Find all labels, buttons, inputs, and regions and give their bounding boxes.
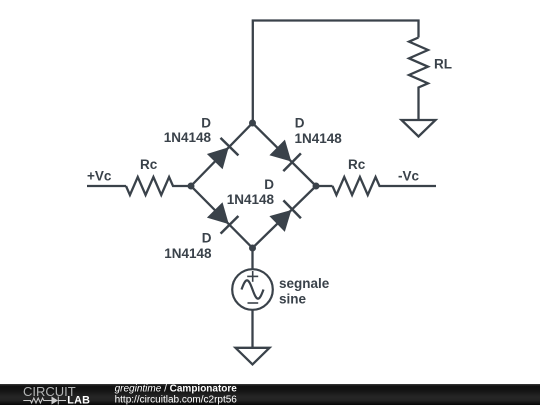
svg-text:D: D xyxy=(264,177,274,192)
svg-text:RL: RL xyxy=(434,57,452,72)
svg-text:sine: sine xyxy=(279,292,307,307)
svg-text:LAB: LAB xyxy=(67,394,90,405)
svg-text:segnale: segnale xyxy=(279,276,330,291)
svg-text:gregintime / Campionatore: gregintime / Campionatore xyxy=(115,384,238,395)
svg-text:D: D xyxy=(295,116,305,131)
svg-text:1N4148: 1N4148 xyxy=(164,246,212,261)
svg-text:http://circuitlab.com/c2rpt56: http://circuitlab.com/c2rpt56 xyxy=(115,395,238,405)
svg-text:+Vc: +Vc xyxy=(87,169,112,184)
svg-text:Rc: Rc xyxy=(140,157,158,172)
svg-text:Rc: Rc xyxy=(348,157,366,172)
svg-text:D: D xyxy=(202,231,212,246)
svg-text:1N4148: 1N4148 xyxy=(164,130,212,145)
svg-text:D: D xyxy=(201,116,211,131)
svg-text:1N4148: 1N4148 xyxy=(227,192,275,207)
svg-text:-Vc: -Vc xyxy=(398,169,420,184)
svg-text:1N4148: 1N4148 xyxy=(295,131,343,146)
